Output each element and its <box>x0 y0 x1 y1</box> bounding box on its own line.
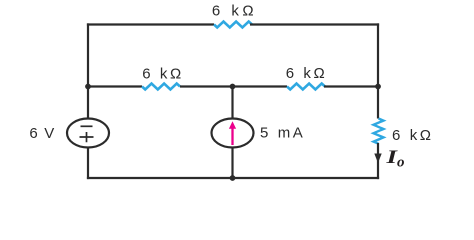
wire left vertical lower <box>87 148 89 180</box>
wire current-source branch upper <box>231 87 233 119</box>
svg-text:5 mA: 5 mA <box>260 125 305 142</box>
node C junction dot right <box>375 84 381 90</box>
wire bottom horizontal <box>87 177 379 179</box>
svg-text:6 kΩ: 6 kΩ <box>286 65 328 82</box>
V1 minus sign <box>81 125 93 127</box>
current source I1 ellipse <box>212 119 254 148</box>
node B junction dot center <box>230 84 236 90</box>
node A junction dot left <box>85 84 91 90</box>
resistor R_top 6k zigzag <box>214 22 252 28</box>
resistor R3 6k vertical zigzag <box>374 119 384 144</box>
wire right vertical lower <box>377 143 379 179</box>
V1 plus sign <box>80 132 94 142</box>
wire left vertical upper <box>87 23 89 119</box>
wire top-right horizontal segment <box>250 23 379 25</box>
svg-text:6 kΩ: 6 kΩ <box>212 3 257 20</box>
svg-text:o: o <box>397 155 405 171</box>
resistor R1 6k zigzag middle-left <box>142 84 180 90</box>
wire top-left horizontal segment <box>87 23 214 25</box>
resistor R2 6k zigzag middle-right <box>287 84 325 90</box>
I1 arrow head <box>229 121 236 128</box>
voltage source V1 ellipse <box>67 119 109 148</box>
wire middle center segment <box>180 85 287 87</box>
arrow Io head pointing down <box>374 154 381 164</box>
wire middle right segment <box>324 85 378 87</box>
wire right vertical upper <box>377 23 379 118</box>
svg-text:6 kΩ: 6 kΩ <box>392 127 434 144</box>
wire middle left segment <box>88 85 142 87</box>
wire current-source branch lower <box>231 148 233 179</box>
svg-text:6 V: 6 V <box>29 125 55 142</box>
I1 arrow shaft <box>231 127 233 145</box>
node D junction dot bottom <box>230 175 236 181</box>
svg-text:I: I <box>385 147 398 168</box>
svg-text:6 kΩ: 6 kΩ <box>142 66 184 83</box>
